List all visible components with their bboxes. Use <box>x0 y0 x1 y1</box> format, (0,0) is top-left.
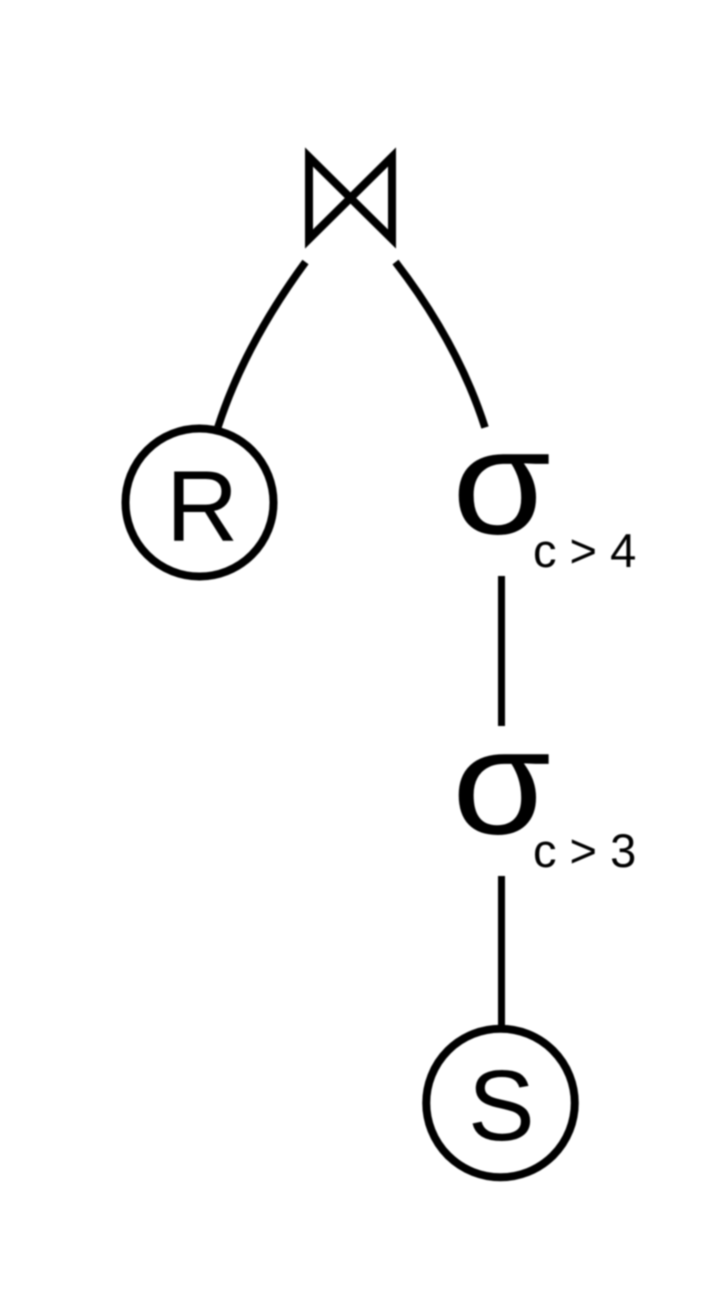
svg-text:c > 4: c > 4 <box>533 524 636 577</box>
svg-text:c > 3: c > 3 <box>533 824 636 877</box>
join operator (bowtie) <box>309 157 392 239</box>
wire: sigma c>4 to sigma c>3 <box>498 576 505 726</box>
wire: sigma c>3 to S <box>498 876 505 1026</box>
wire: edge join to R <box>218 262 306 427</box>
node R (circle) <box>126 429 274 577</box>
node S (circle) <box>426 1029 575 1178</box>
svg-text:R: R <box>166 451 238 563</box>
wire: edge join to sigma c>4 <box>396 262 486 428</box>
svg-text:S: S <box>468 1050 535 1162</box>
